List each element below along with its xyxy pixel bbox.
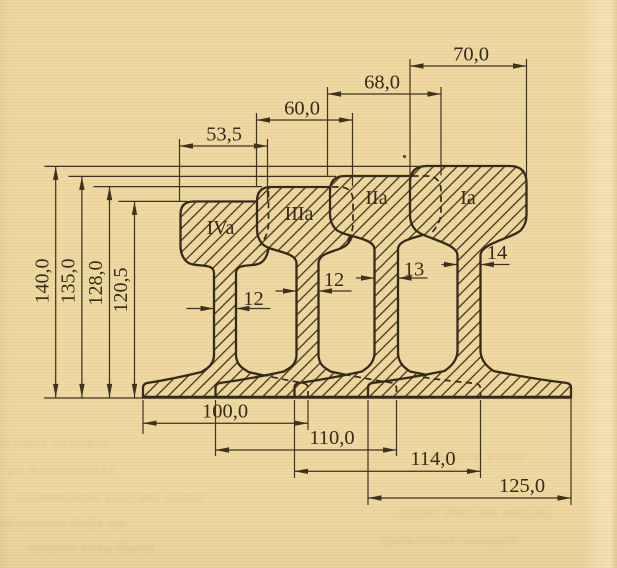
vertical dimension line x=109.5: [109, 187, 111, 398]
web thickness dimension 12: leaders and arrows: [187, 308, 214, 310]
vertical dimension line x=134.5: [134, 201, 136, 397]
dimension 125,0: extension lines: [367, 400, 369, 505]
svg-text:110,0: 110,0: [309, 427, 354, 449]
svg-text:12: 12: [243, 288, 264, 310]
rail profile IIa: [295, 176, 481, 397]
extension line from IIIa head top (128,0): [94, 186, 263, 188]
svg-text:53,5: 53,5: [206, 124, 242, 146]
speck artifact: [403, 155, 406, 158]
svg-text:12: 12: [324, 269, 345, 291]
dimension 53,5: line: [180, 145, 268, 147]
svg-text:13: 13: [404, 259, 425, 281]
dimension 60,0: line: [257, 119, 353, 121]
svg-text:128,0: 128,0: [85, 261, 107, 306]
dimension 68,0: line: [328, 93, 442, 95]
thin baseline extension to the left: [44, 397, 143, 399]
hidden edge: IVa base right slope and tip (dashed, behind IIIa/IIa): [261, 375, 308, 396]
svg-text:68,0: 68,0: [364, 72, 400, 94]
dimension 110,0: extension lines: [215, 400, 217, 456]
rail profile IIIa: [216, 187, 397, 397]
svg-text:140,0: 140,0: [31, 259, 53, 304]
dimension 114,0: extension lines: [294, 400, 296, 478]
dimension 125,0: line: [368, 497, 571, 499]
rail profile Ia: [368, 166, 571, 397]
vertical dimension line x=81.9: [81, 176, 83, 397]
dimension 100,0: line: [143, 422, 308, 424]
svg-text:Ia: Ia: [460, 187, 476, 209]
svg-text:IIIa: IIIa: [285, 203, 314, 225]
hidden edge: IVa head right (dashed, behind IIIa): [260, 191, 269, 246]
svg-text:60,0: 60,0: [284, 98, 320, 120]
svg-text:125,0: 125,0: [499, 475, 545, 497]
dimension 114,0: line: [295, 470, 481, 472]
dimension 53,5: extension lines: [179, 139, 181, 201]
svg-text:114,0: 114,0: [410, 448, 455, 470]
hidden edge: IIa head top-right corner and right side (dashed, behind Ia): [412, 176, 441, 232]
extension line from Ia head top (140,0): [45, 165, 431, 167]
extension line from IVa head top (120,5): [118, 200, 188, 202]
dimension 70,0: line: [410, 65, 527, 67]
web thickness dimension 13: leaders and arrows: [356, 277, 374, 279]
svg-text:70,0: 70,0: [453, 44, 489, 66]
svg-text:100,0: 100,0: [202, 401, 248, 423]
svg-text:IIa: IIa: [365, 187, 387, 209]
svg-text:14: 14: [487, 242, 508, 264]
extension line from IIa head top (135,0): [69, 175, 337, 177]
dimension 100,0: extension lines: [142, 400, 144, 434]
hidden edge: IIIa base right slope and tip (dashed, behind IIa/Ia): [344, 374, 397, 396]
dimension 68,0: extension lines: [327, 87, 329, 176]
dimension 60,0: extension lines: [256, 113, 258, 186]
dimension 110,0: line: [216, 449, 397, 451]
base line (common bottom of all rail feet): [142, 396, 572, 399]
svg-text:120,5: 120,5: [110, 268, 132, 313]
dimension 70,0: extension lines: [409, 59, 411, 184]
hidden edge: IIIa head top-right corner and right side (dashed, behind IIa): [332, 187, 353, 245]
svg-text:IVa: IVa: [207, 217, 235, 239]
vertical dimension line x=55.7: [55, 166, 57, 397]
web thickness dimension 14: leaders and arrows: [442, 264, 458, 266]
svg-text:135,0: 135,0: [57, 259, 79, 304]
hidden edge: IIa base right slope and tip (dashed, behind Ia): [423, 377, 481, 396]
rail profile IVa: [143, 202, 308, 398]
web thickness dimension 12: leaders and arrows: [276, 290, 297, 292]
